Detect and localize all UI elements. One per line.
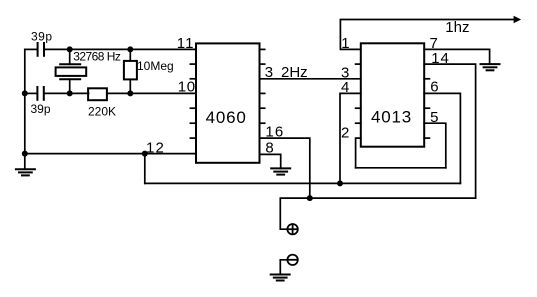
svg-text:220K: 220K bbox=[88, 105, 116, 119]
svg-text:16: 16 bbox=[265, 124, 284, 141]
wire line B horizontal (pin2 to pin5) bbox=[356, 167, 446, 169]
pin ticks 4060 left bbox=[190, 64, 195, 138]
IC U2 4013 box bbox=[361, 43, 424, 146]
wire 4013 pin7 to ground bbox=[424, 49, 489, 64]
wire 220K to 4060 pin 10 bbox=[107, 92, 195, 94]
wire 4013 pin1 to 1hz output bbox=[340, 20, 514, 50]
wire line D V+ horizontal bbox=[280, 198, 475, 229]
svg-text:39p: 39p bbox=[31, 102, 51, 116]
svg-text:2: 2 bbox=[341, 125, 349, 142]
wire left ground rail vertical bbox=[24, 49, 26, 169]
wire 4013 pin2 to line B bbox=[356, 138, 361, 168]
svg-text:11: 11 bbox=[177, 35, 195, 52]
svg-text:3: 3 bbox=[265, 64, 273, 81]
node left rail row4 junction bbox=[22, 90, 28, 96]
wire 4013 pin4 down to line C bbox=[340, 93, 361, 183]
IC U1 4060 box bbox=[196, 43, 260, 162]
wire 4060 pin16 to V+ line D bbox=[260, 138, 310, 198]
ground left rail bbox=[16, 169, 35, 175]
resistor R2 220K bbox=[88, 88, 107, 100]
crystal X1 32768 Hz bbox=[56, 49, 87, 93]
wire pin12 drop to line C bbox=[144, 154, 146, 184]
svg-text:6: 6 bbox=[430, 79, 438, 96]
node 10Meg top junction bbox=[127, 46, 133, 52]
wire 4013 pin14 to V+ line D bbox=[424, 64, 475, 198]
svg-text:32768 Hz: 32768 Hz bbox=[73, 50, 121, 64]
capacitor C1 39p bbox=[38, 43, 44, 56]
wire negative terminal to ground bbox=[280, 260, 287, 274]
svg-text:10: 10 bbox=[178, 79, 196, 96]
svg-text:4013: 4013 bbox=[371, 108, 412, 127]
svg-text:1: 1 bbox=[341, 35, 349, 52]
svg-text:39p: 39p bbox=[31, 29, 53, 43]
wire 4060 pin3 to 4013 pin3 (2Hz) bbox=[260, 78, 361, 80]
battery positive terminal bbox=[287, 224, 297, 234]
node 10Meg bottom junction bbox=[127, 90, 133, 96]
capacitor C2 39p bbox=[37, 87, 43, 100]
svg-text:1hz: 1hz bbox=[445, 19, 469, 36]
svg-text:4060: 4060 bbox=[206, 108, 247, 127]
wire 4060 pin8 to ground bbox=[260, 154, 281, 168]
node crystal bottom junction bbox=[67, 90, 73, 96]
wire C2 to 220K bbox=[45, 92, 89, 94]
wire line C horizontal (gnd net to 4013 pins 4,6) bbox=[145, 182, 461, 184]
wire row1 left rail to C1 bbox=[25, 48, 37, 50]
pin ticks 4013 right bbox=[424, 79, 429, 138]
svg-text:10Meg: 10Meg bbox=[137, 59, 174, 73]
svg-text:2Hz: 2Hz bbox=[281, 64, 308, 81]
pin ticks 4060 right bbox=[260, 49, 265, 123]
node ground rail pin12 junction bbox=[22, 151, 28, 157]
wire C1 to 4060 pin 11 bbox=[45, 48, 196, 50]
ground 4013 pin7 bbox=[481, 64, 500, 70]
resistor R1 10Meg bbox=[124, 49, 137, 93]
ground battery negative bbox=[271, 275, 290, 281]
node crystal top junction bbox=[67, 46, 73, 52]
pin ticks 4013 left bbox=[356, 64, 361, 123]
wire pin 12 row bbox=[25, 153, 196, 155]
node pin16 on line D bbox=[307, 195, 313, 201]
svg-text:12: 12 bbox=[146, 139, 165, 156]
svg-text:14: 14 bbox=[431, 50, 449, 67]
wire 4013 pin5 down to line B bbox=[424, 123, 446, 168]
ground 4060 pin8 bbox=[271, 168, 290, 174]
wire row4 left rail to C2 bbox=[25, 92, 37, 94]
battery negative terminal bbox=[287, 255, 297, 265]
node pin4 drop on line C bbox=[337, 180, 343, 186]
svg-text:5: 5 bbox=[430, 109, 438, 126]
node pin12 drop junction bbox=[142, 151, 148, 157]
svg-text:8: 8 bbox=[265, 139, 273, 156]
svg-text:4: 4 bbox=[341, 79, 349, 96]
arrowhead 1hz output bbox=[514, 16, 522, 24]
wire 4013 pin6 down to line C bbox=[424, 93, 460, 183]
